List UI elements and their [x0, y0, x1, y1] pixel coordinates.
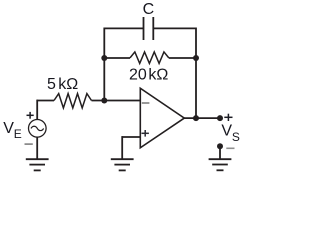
wire non-inverting to ground [121, 136, 123, 159]
node output junction [193, 115, 199, 121]
capacitor C [144, 17, 154, 40]
svg-text:S: S [232, 130, 240, 144]
wire output [184, 117, 220, 119]
node input junction [101, 98, 107, 104]
svg-text:E: E [14, 127, 22, 141]
wire source top vertical [36, 100, 38, 120]
wire right feedback vertical [195, 28, 197, 119]
wire source bottom vertical [36, 137, 38, 160]
svg-text:20: 20 [129, 66, 147, 83]
svg-text:5: 5 [47, 76, 56, 93]
source VE circle [29, 120, 47, 138]
node feedback right junction [193, 55, 199, 61]
wire 20k branch right lead [169, 57, 196, 59]
op-amp non-inverting plus mark [142, 130, 149, 137]
svg-text:kΩ: kΩ [148, 66, 168, 83]
svg-text:C: C [143, 1, 155, 18]
wire non-inverting input [122, 136, 140, 138]
ground (source) [26, 159, 49, 170]
ground (op-amp) [111, 159, 134, 170]
wire 5k to inverting input [92, 100, 141, 102]
node feedback left junction [101, 55, 107, 61]
resistor 5k zigzag [54, 94, 92, 108]
resistor 20k zigzag [130, 52, 169, 64]
op-amp inverting minus mark [142, 102, 150, 104]
ground (output) [209, 159, 232, 170]
wire 20k branch left lead [104, 57, 130, 59]
source minus sign [25, 143, 33, 145]
output plus sign [224, 114, 232, 121]
node output terminal plus [217, 115, 223, 121]
wire top feedback branch left lead [104, 27, 143, 29]
source plus sign [27, 112, 34, 119]
svg-text:V: V [3, 120, 14, 137]
wire output minus to ground [219, 146, 221, 159]
svg-text:V: V [221, 122, 232, 139]
output minus sign [226, 147, 234, 149]
wire left feedback vertical [103, 28, 105, 101]
wire source to 5k [37, 100, 54, 102]
node output terminal minus [217, 143, 223, 149]
svg-text:kΩ: kΩ [58, 76, 78, 93]
wire top feedback branch right lead [153, 27, 196, 29]
source VE sine [31, 126, 44, 130]
op-amp U1 triangle [140, 88, 184, 148]
